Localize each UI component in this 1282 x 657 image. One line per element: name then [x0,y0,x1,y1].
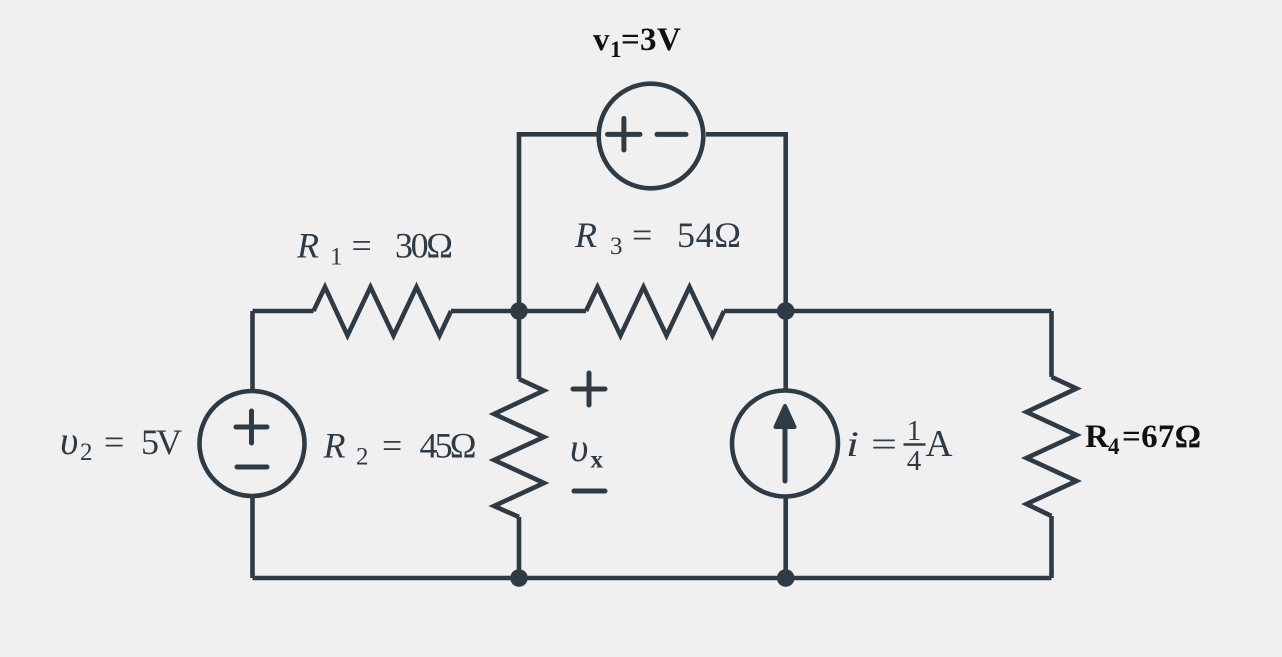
current source I1 circle [732,391,838,497]
label i = 1/4 A [846,415,953,477]
node dot: bottom right node [777,569,795,587]
V1 minus sign [657,132,686,137]
wire: middle branch top (node to R2) [517,311,522,379]
svg-text:υ2=5V: υ2=5V [60,418,182,466]
voltage source V1 circle [599,84,704,189]
node dot: top middle node [510,302,528,320]
current source I1 arrow shaft [783,426,788,481]
V2 minus sign [237,465,267,470]
svg-text:R4=67Ω: R4=67Ω [1085,419,1201,459]
resistor R4 zigzag [1027,377,1077,516]
node dot: bottom middle node [510,569,528,587]
wire: main horizontal node-to-right-branch segment [786,309,1052,314]
resistor R3 zigzag [586,287,724,336]
wire: middle branch bottom (R2 to bottom node) [517,517,522,578]
svg-text:i: i [846,424,859,464]
wire: right branch top (corner to R4) [1049,311,1054,377]
node dot: top right node [777,302,795,320]
wire: top loop right horizontal (v1 source to current-source column) [706,134,786,311]
wire: main horizontal R1-to-node segment [451,309,519,314]
resistor R1 zigzag [314,287,452,336]
svg-text:A: A [926,423,954,465]
svg-text:1: 1 [907,415,922,447]
current source I1 arrow head [776,406,795,427]
V1 plus sign [608,119,641,151]
wire: left branch bottom (v2 source down to bottom rail) [250,496,255,578]
svg-text:=: = [871,424,897,464]
V2 plus sign [236,411,267,443]
wire: top loop left horizontal (node column to v1 source) [519,134,597,311]
wire: left branch top (corner down to v2 source) [250,311,255,391]
wire: main horizontal node-to-R3 segment [519,309,586,314]
wire: right branch bottom (R4 to bottom rail) [1049,516,1054,578]
voltage source V2 circle [200,391,305,496]
svg-text:4: 4 [907,445,922,477]
vx minus sign [574,489,605,494]
wire: main horizontal R3-to-node segment [724,309,786,314]
wire: bottom rail [253,576,1052,581]
wire: current source branch bottom (source to bottom node) [783,496,788,578]
svg-text:v1=3V: v1=3V [593,22,681,62]
wire: main horizontal left segment (left branch to R1) [253,309,314,314]
vx plus sign [573,373,605,405]
wire: current source branch top (node to source) [783,311,788,391]
resistor R2 zigzag [494,379,544,517]
